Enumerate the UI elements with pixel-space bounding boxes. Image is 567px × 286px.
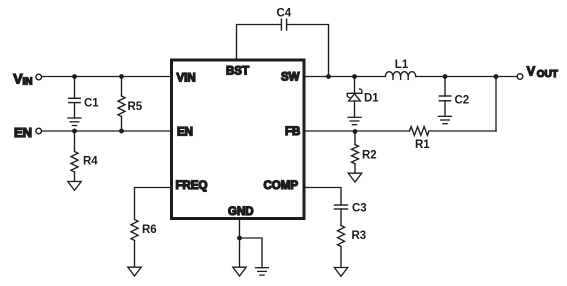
svg-text:C4: C4 xyxy=(277,8,292,20)
wire C2 bottom lead xyxy=(444,101,446,117)
wire R3 bottom lead xyxy=(340,246,342,267)
diode D1 xyxy=(347,89,379,105)
wire R6 bottom lead xyxy=(134,240,136,267)
svg-text:D1: D1 xyxy=(364,93,379,105)
node VIN/C1 junction xyxy=(72,74,77,79)
wire R4 top lead xyxy=(74,131,76,152)
ground arrow under R2 xyxy=(348,173,361,182)
ground arrow under R6 xyxy=(128,267,141,276)
svg-text:C3: C3 xyxy=(352,203,367,215)
capacitor C2 xyxy=(439,95,469,107)
node EN/R4 junction xyxy=(72,129,77,134)
wire FB rail right xyxy=(429,130,496,132)
wire GND left branch xyxy=(239,238,241,267)
wire FREQ to R6 xyxy=(135,188,171,220)
resistor R5 xyxy=(118,96,143,117)
svg-text:OUT: OUT xyxy=(537,69,558,80)
wire C1 top lead xyxy=(74,77,76,99)
wire R2 bottom lead xyxy=(354,164,356,174)
wire C1 bottom lead xyxy=(74,103,76,118)
node C2 junction xyxy=(443,74,448,79)
wire R5 top lead xyxy=(121,77,123,97)
wire VIN rail xyxy=(42,76,170,78)
resistor R3 xyxy=(338,226,367,247)
IC U1 xyxy=(172,60,305,219)
capacitor C3 xyxy=(335,203,367,215)
capacitor C4 xyxy=(277,8,292,31)
ground arrow under GND xyxy=(233,267,246,276)
svg-text:V: V xyxy=(527,65,536,79)
resistor R6 xyxy=(131,220,157,241)
wire FB rail left xyxy=(305,130,410,132)
wire GND right branch xyxy=(240,238,263,268)
svg-text:FB: FB xyxy=(285,126,300,138)
resistor R1 xyxy=(410,127,431,151)
wire C4 to SW node xyxy=(287,25,329,77)
svg-text:VIN: VIN xyxy=(177,73,196,85)
terminal VIN xyxy=(13,71,41,88)
svg-text:COMP: COMP xyxy=(264,180,299,192)
capacitor C1 xyxy=(69,98,100,110)
node EN/R5 junction xyxy=(119,129,124,134)
wire R4 bottom lead xyxy=(74,172,76,182)
svg-text:GND: GND xyxy=(228,206,254,218)
node feedback junction xyxy=(494,74,499,79)
svg-text:BST: BST xyxy=(226,66,249,78)
svg-text:R3: R3 xyxy=(352,230,367,242)
ground earth under D1 xyxy=(348,117,361,124)
ground earth under C2 xyxy=(439,116,452,123)
svg-text:R1: R1 xyxy=(415,139,430,151)
wire COMP to C3 xyxy=(305,188,341,206)
svg-text:EN: EN xyxy=(14,125,32,140)
wire GND pin down xyxy=(239,220,241,239)
svg-text:R5: R5 xyxy=(128,101,143,113)
wire C3 to R3 xyxy=(340,209,342,226)
svg-text:EN: EN xyxy=(177,127,193,139)
svg-text:R2: R2 xyxy=(362,150,377,162)
svg-text:R6: R6 xyxy=(142,224,157,236)
svg-text:SW: SW xyxy=(281,72,300,84)
svg-text:R4: R4 xyxy=(83,156,98,168)
node GND junction xyxy=(237,236,242,241)
node SW/D1 junction xyxy=(352,74,357,79)
ground earth under C1 xyxy=(68,118,81,126)
terminal VOUT xyxy=(517,65,558,80)
wire D1 bottom lead xyxy=(354,101,356,117)
node VIN/R5 junction xyxy=(119,74,124,79)
node FB/R2 junction xyxy=(353,129,358,134)
svg-text:L1: L1 xyxy=(395,59,409,71)
svg-text:C2: C2 xyxy=(455,95,470,107)
wire SW rail left xyxy=(305,76,385,78)
node SW/C4 junction xyxy=(326,74,331,79)
svg-text:IN: IN xyxy=(23,77,33,88)
ground earth right of GND xyxy=(256,268,269,275)
svg-text:FREQ: FREQ xyxy=(176,180,208,192)
wire BST to C4 xyxy=(237,25,282,60)
wire R5 bottom lead xyxy=(121,117,123,132)
svg-text:C1: C1 xyxy=(84,98,99,110)
resistor R2 xyxy=(352,145,377,164)
wire SW rail right xyxy=(416,76,517,78)
ground arrow under R4 xyxy=(68,182,81,191)
wire feedback vertical xyxy=(495,77,497,132)
wire R2 top lead xyxy=(354,131,356,145)
terminal EN xyxy=(14,125,42,140)
wire C2 top lead xyxy=(444,77,446,97)
wire EN rail xyxy=(42,130,170,132)
wire D1 top lead xyxy=(354,77,356,94)
ground arrow under R3 xyxy=(334,268,347,277)
resistor R4 xyxy=(71,152,98,173)
inductor L1 xyxy=(385,59,415,80)
